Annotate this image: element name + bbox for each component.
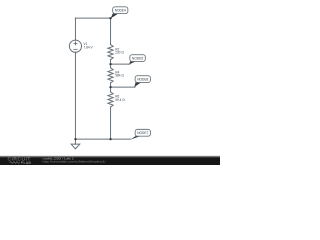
svg-text:230 Ω: 230 Ω [115, 51, 124, 55]
svg-text:NODE4: NODE4 [115, 8, 126, 12]
svg-text:584 Ω: 584 Ω [115, 74, 124, 78]
svg-text:NODE5: NODE5 [132, 56, 143, 60]
svg-text:http://circuitlab.com/c/5abvn5: http://circuitlab.com/c/5abvn5/mplus1/ [43, 160, 106, 164]
svg-text:NODE7: NODE7 [137, 131, 148, 135]
svg-text:NODE8: NODE8 [137, 77, 148, 81]
svg-text:99.4 Ω: 99.4 Ω [115, 98, 125, 102]
svg-text:LAB: LAB [24, 161, 32, 165]
svg-text:7.84 V: 7.84 V [83, 45, 93, 49]
